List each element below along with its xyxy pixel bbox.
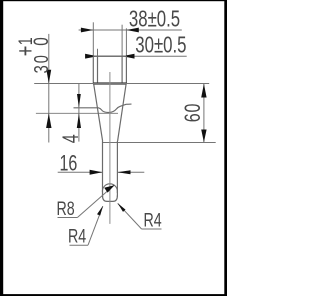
leader underline R8 xyxy=(58,217,78,219)
part cup bottom thick line xyxy=(93,82,127,84)
part stem right edge xyxy=(116,141,118,197)
svg-text:R4: R4 xyxy=(144,210,162,232)
part inner-right wall xyxy=(121,56,123,83)
svg-text:4: 4 xyxy=(60,134,84,143)
arrow down at y=107.9 for 4 xyxy=(77,94,81,108)
arrow right of 30 dim xyxy=(122,54,134,59)
wire: long extension line at y=84 xyxy=(34,83,209,85)
border frame right xyxy=(224,0,227,296)
svg-text:0: 0 xyxy=(182,104,206,113)
part tip rounded bottom xyxy=(103,196,118,202)
dimension 38±0.5 line xyxy=(79,29,182,31)
dimension 30+1/0 vertical line xyxy=(48,34,50,143)
leader underline R4 right xyxy=(142,228,162,230)
arrow left of 30 dim xyxy=(85,54,97,59)
wire: extension line at y=113.3 xyxy=(36,112,118,114)
border frame left xyxy=(0,0,3,296)
part taper right edge xyxy=(118,85,126,141)
svg-text:R8: R8 xyxy=(57,198,75,220)
svg-text:16: 16 xyxy=(60,152,78,176)
svg-text:6: 6 xyxy=(182,113,206,122)
dimension 60 vertical line xyxy=(203,84,205,143)
arrow left of 38 dim xyxy=(81,28,93,33)
dimension 16 line left piece xyxy=(58,171,103,173)
arrow down at y=84 for 30+1/0 xyxy=(46,70,51,84)
wire: extension line inner-right wall top xyxy=(121,25,123,57)
arrow right-pointing at stem left xyxy=(90,170,103,175)
arrow right of 38 dim xyxy=(126,28,138,33)
leader line R4 right xyxy=(118,203,142,229)
leader line R8 xyxy=(77,185,114,218)
svg-text:38±0.5: 38±0.5 xyxy=(129,7,180,32)
dimension 4 vertical line xyxy=(78,84,80,142)
arrow R4 left leader xyxy=(97,206,103,216)
arrow left-pointing at stem right xyxy=(117,170,130,174)
wire: extension line inner-left wall top xyxy=(97,49,99,57)
R8 arc at tip xyxy=(102,184,117,193)
border frame top xyxy=(0,0,227,1)
svg-text:3: 3 xyxy=(30,65,53,73)
arrow up at y=113.3 for 30+1/0 xyxy=(46,113,51,128)
arrow down at y=141.9 for 60 xyxy=(201,130,206,143)
arrow up at y=84 for 60 xyxy=(201,84,206,98)
part top edge xyxy=(93,55,126,57)
svg-text:30±0.5: 30±0.5 xyxy=(135,33,186,58)
svg-text:0: 0 xyxy=(29,37,53,46)
svg-text:+: + xyxy=(10,46,39,57)
part stem left edge xyxy=(102,141,104,197)
part funnel inner surface arc xyxy=(74,104,132,112)
arrow up at y=113.3 for 4 xyxy=(77,113,81,128)
svg-text:R4: R4 xyxy=(68,225,86,247)
border frame bottom xyxy=(0,294,227,296)
arrow R4 right leader xyxy=(118,203,126,212)
part taper left edge xyxy=(94,85,103,141)
dimension 16 line right piece xyxy=(117,171,144,173)
centerline of part xyxy=(109,72,111,224)
arrow R8 leader xyxy=(104,185,114,193)
wire: extension line outer-right wall top xyxy=(125,28,127,56)
part outer-left wall xyxy=(92,56,94,83)
part outer-right wall xyxy=(125,56,127,83)
leader line R4 left xyxy=(88,206,103,245)
dimension 30±0.5 line xyxy=(89,55,187,57)
leader underline R4 left xyxy=(70,244,89,246)
part inner-left wall xyxy=(97,56,99,83)
wire: extension line outer-left wall top xyxy=(92,22,94,56)
wire: extension line at y=141.9 xyxy=(103,142,216,144)
